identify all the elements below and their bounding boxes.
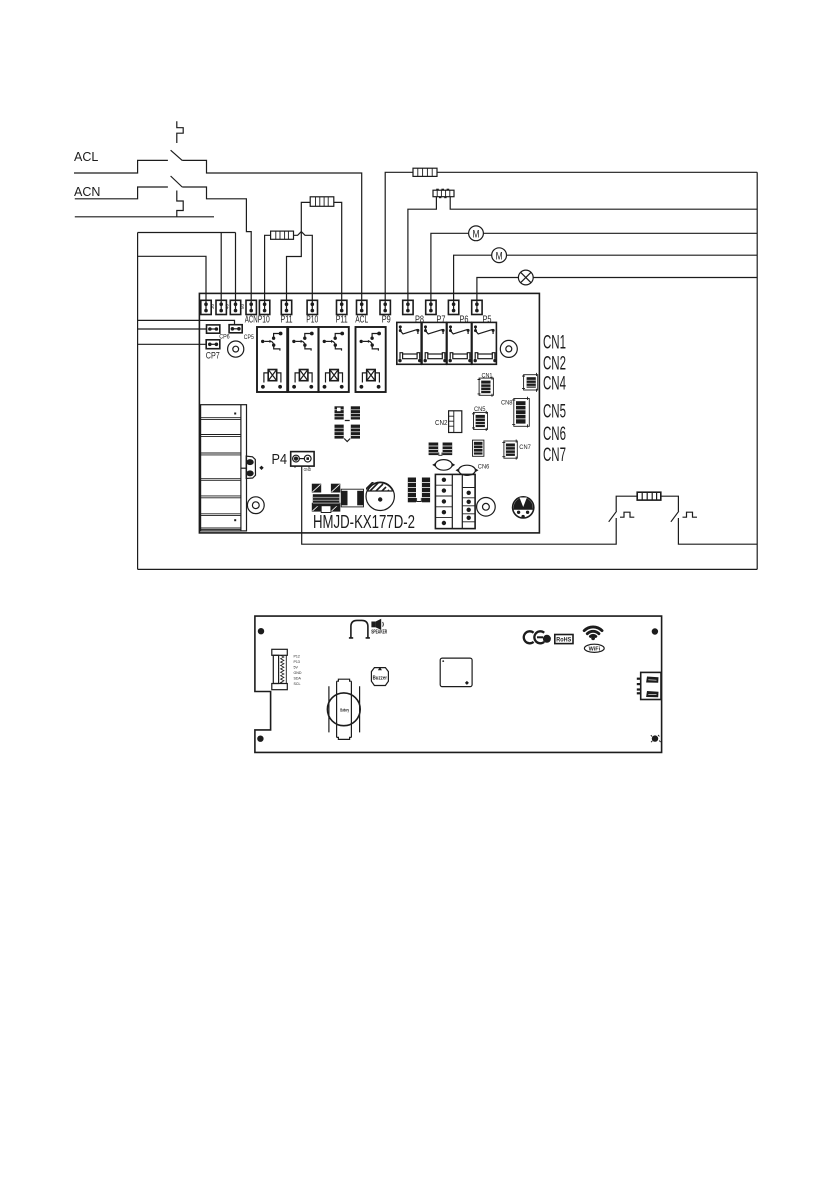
pin 1 [201, 300, 211, 314]
pin 2 [216, 300, 226, 314]
pin tiny silk marks [210, 303, 245, 309]
wire switch handle bar [75, 216, 214, 218]
ribbon pin labels [294, 655, 302, 687]
mounting pad bottom-right [651, 735, 661, 742]
optocoupler U3 [335, 406, 361, 441]
wire F3 to right switch [661, 496, 679, 511]
capacitor C10 (twin pads) [429, 443, 453, 456]
buzzer BZ1 [371, 667, 388, 686]
pin ACN [246, 300, 256, 314]
switch SW1 blade (ACL pole) [171, 150, 183, 160]
svg-text:40: 40 [225, 303, 230, 309]
svg-text:CN7: CN7 [543, 445, 566, 466]
svg-text:CN6: CN6 [478, 464, 490, 471]
connector CN4 [522, 373, 538, 392]
relay K3 [319, 327, 349, 392]
pin P7 [426, 300, 436, 314]
svg-text:P5: P5 [483, 314, 492, 326]
connector J2 (power header) [435, 474, 475, 528]
speaker icon [371, 619, 383, 630]
relay K4 [356, 327, 386, 392]
connector CN2 [449, 411, 462, 433]
lamp L1 [518, 270, 533, 285]
pin P11 [281, 300, 291, 314]
pin P10b [307, 300, 317, 314]
mounting pad top-left [258, 628, 264, 634]
wire bus to CP5 [138, 320, 235, 324]
pin ACL [357, 300, 367, 314]
wire bus to pins 2,3 [138, 233, 236, 304]
svg-text:CN6: CN6 [543, 424, 566, 445]
svg-text:RoHS: RoHS [556, 637, 571, 644]
wire left neutral bus [137, 233, 139, 570]
display board outline [255, 616, 662, 752]
capacitor C11 [473, 440, 484, 456]
relay K2 [288, 327, 318, 392]
transistor Q1 (on heatsink) [241, 456, 264, 478]
wire P8 pin to heater F2 [408, 197, 437, 304]
wire M1 to right bus [483, 232, 757, 234]
board HMJD-KX177D-2 outline [199, 293, 539, 533]
svg-text:GND: GND [304, 467, 312, 472]
svg-text:CN5: CN5 [474, 406, 486, 413]
mounting hole top-right [500, 340, 517, 357]
connector CN1 [478, 377, 494, 397]
svg-text:HMJD-KX177D-2: HMJD-KX177D-2 [313, 511, 415, 532]
svg-text:5V: 5V [294, 666, 299, 670]
pin P8 [403, 300, 413, 314]
svg-text:CP6: CP6 [219, 333, 230, 340]
varistor RV1 [513, 497, 534, 519]
wire ACL right to ACL pin [182, 160, 362, 304]
wire P7 pin to motor M1 [431, 233, 469, 304]
svg-text:ACN: ACN [245, 314, 258, 326]
switch SW3 actuator symbol [683, 512, 698, 517]
mounting pad bottom-left [257, 736, 263, 742]
svg-text:P11: P11 [281, 314, 293, 326]
svg-text:P7: P7 [437, 314, 446, 326]
svg-text:CN1: CN1 [482, 372, 493, 379]
pin P6 [448, 300, 458, 314]
wire ACL left [74, 160, 168, 173]
wire bus to CP6 [138, 328, 207, 330]
connector CN7 [502, 440, 517, 460]
svg-text:P4: P4 [272, 451, 288, 468]
wire resistor R2 left leg to P11 pin [287, 202, 311, 304]
svg-text:P12: P12 [294, 655, 300, 659]
relay K1 [257, 327, 287, 392]
logo CE [524, 631, 544, 643]
svg-text:P10: P10 [306, 314, 318, 326]
wire P5 pin to lamp [477, 278, 519, 304]
switch SW2 blade left [609, 511, 617, 522]
battery holder BT1 [327, 679, 360, 739]
svg-text:SCL: SCL [294, 682, 301, 686]
switch SW1 blade (ACN pole) [171, 176, 183, 187]
wire bottom return line [138, 568, 758, 570]
svg-text:P13: P13 [294, 660, 300, 664]
svg-text:CP5: CP5 [244, 334, 254, 341]
thermal fuse F3 [637, 492, 661, 500]
svg-text:CN4: CN4 [543, 374, 566, 395]
wire SW2 left to fuse F3 [616, 496, 637, 511]
svg-text:P6: P6 [460, 314, 469, 326]
svg-text:P11: P11 [336, 314, 348, 326]
pin 3 [230, 300, 240, 314]
wire F1 to right bus [437, 171, 757, 173]
svg-text:CN1: CN1 [543, 332, 566, 353]
svg-text:ACN: ACN [74, 185, 100, 199]
svg-text:ACL: ACL [74, 150, 98, 164]
pin P5 [472, 300, 482, 314]
heater element F2 [433, 189, 454, 199]
svg-text:M: M [496, 251, 503, 263]
svg-text:CN7: CN7 [519, 444, 531, 451]
heater element F1 [413, 168, 437, 176]
wire bus to CP7 [138, 343, 207, 345]
relay K5 [397, 322, 422, 364]
svg-text:CN5: CN5 [543, 402, 566, 423]
wire R1 to P10 pin (with hop) [294, 232, 313, 304]
wire P4 GND to door switch [302, 466, 617, 544]
motor M1 [469, 226, 484, 241]
logo RoHS [555, 635, 573, 644]
pin header P (14 pins) [201, 300, 482, 314]
svg-text:WiFi: WiFi [589, 647, 601, 653]
svg-text:CN2: CN2 [543, 353, 566, 374]
svg-text:SPEAKER: SPEAKER [371, 630, 387, 636]
wire M2 to right bus [507, 254, 758, 256]
speaker bracket [349, 620, 370, 638]
wire ACN right to ACN pin [182, 187, 251, 304]
pin P10 [259, 300, 269, 314]
IC U5 [440, 658, 472, 687]
mounting hole bottom-mid [477, 498, 496, 517]
wifi dot [591, 636, 595, 640]
svg-text:CN8: CN8 [501, 399, 513, 406]
connector CP6 [207, 325, 220, 333]
switch SW2 actuator symbol [620, 512, 634, 517]
wire R2 to P11 pin [334, 202, 342, 304]
diode D2 (oval) [456, 465, 479, 475]
svg-text:GND: GND [294, 671, 302, 675]
svg-text:P9: P9 [382, 314, 391, 326]
svg-text:Buzzer: Buzzer [373, 675, 388, 681]
wire P10 pin to resistor R1 [265, 235, 271, 304]
resistor R2 [310, 197, 334, 207]
switch SW1 mechanical link upper [177, 121, 183, 143]
relay K8 [472, 322, 497, 364]
inductor L2 [312, 484, 341, 513]
relay K6 [422, 322, 447, 364]
connector P4 [291, 452, 314, 468]
mounting hole top-left [228, 341, 244, 357]
svg-text:CP7: CP7 [206, 350, 220, 361]
pin P11b [337, 300, 347, 314]
wire SW3 to right bus [678, 518, 757, 544]
svg-text:ACL: ACL [355, 314, 368, 326]
svg-text:Battery: Battery [340, 708, 349, 714]
connector CP7 [206, 340, 220, 349]
connector CN8 [512, 397, 529, 428]
logo dot [543, 635, 551, 643]
switch SW1 mechanical link lower [177, 191, 183, 217]
wire ACN left [75, 187, 168, 199]
wifi icon [584, 627, 602, 636]
svg-text:50: 50 [240, 303, 245, 309]
relay K7 [447, 322, 472, 364]
svg-text:M: M [473, 229, 480, 241]
connector CP5 [229, 325, 242, 333]
wire bus to pin 1 [138, 256, 206, 304]
capacitor C1 (electrolytic) [365, 478, 395, 510]
svg-text:30: 30 [210, 303, 215, 309]
wire P6 pin to motor M2 [454, 255, 492, 304]
wire right return bus [756, 172, 758, 569]
diode D1 (oval) [432, 460, 455, 471]
connector CN5 [472, 411, 488, 431]
svg-text:P10: P10 [258, 314, 270, 326]
optocoupler U4 [408, 478, 430, 503]
svg-text:CN2: CN2 [435, 420, 448, 427]
heatsink HS1 [201, 405, 247, 531]
connector J3 (ribbon) [272, 649, 288, 689]
resistor R1 [271, 231, 294, 239]
motor M2 [492, 248, 507, 263]
connector USB [637, 672, 661, 699]
svg-text:SDA: SDA [294, 677, 302, 681]
pin P9 [380, 300, 390, 314]
label WiFi [584, 644, 604, 652]
capacitor C12 [341, 489, 363, 507]
wire lamp to right bus [533, 277, 757, 279]
mounting pad top-right [652, 628, 658, 634]
switch SW3 blade right [671, 511, 679, 522]
wire P9 pin to fuse F1 [385, 172, 413, 304]
mounting hole bottom-left [247, 497, 264, 514]
wire F2 to right bus [450, 197, 757, 210]
